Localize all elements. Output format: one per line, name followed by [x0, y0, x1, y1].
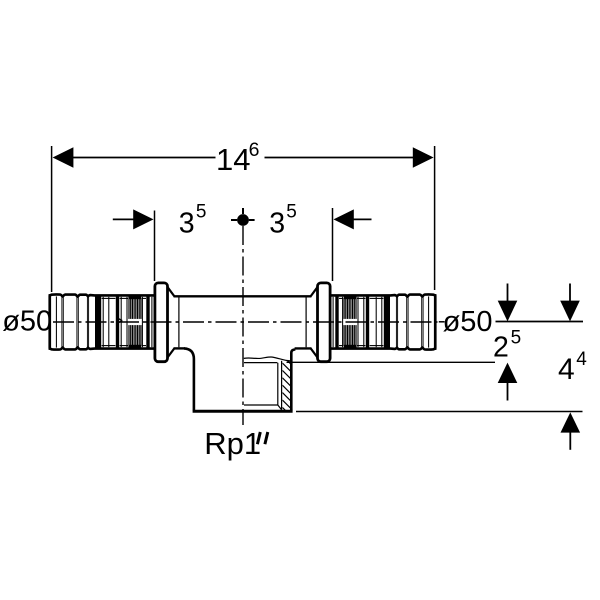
branch white fill	[195, 349, 291, 410]
svg-text:14: 14	[216, 142, 250, 177]
flange	[155, 283, 168, 362]
inch double prime marks	[257, 432, 260, 444]
pipe end mark (left)	[117, 318, 123, 321]
reference line at shoulder level	[287, 361, 496, 363]
thread bore top line	[244, 362, 277, 364]
svg-text:3: 3	[269, 207, 285, 239]
cone flange-to-body	[168, 287, 175, 357]
arrowhead left of 14^6	[53, 147, 74, 167]
right press sleeve (mirror)	[310, 283, 436, 362]
vertical branch centerline	[242, 226, 244, 425]
down arrow tail (2^5)	[507, 284, 509, 303]
break line (wavy)	[244, 357, 290, 361]
center mark tick top	[242, 208, 244, 214]
svg-text:4: 4	[576, 349, 587, 370]
left arrowhead pointing right	[133, 209, 153, 229]
branch right outline	[291, 350, 295, 411]
extension line right (x=434.5)	[434, 146, 436, 290]
body top line	[174, 295, 312, 297]
branch left outline	[184, 348, 194, 410]
up arrowhead (4^4)	[561, 412, 581, 432]
svg-text:2: 2	[493, 332, 509, 364]
svg-text:5: 5	[286, 202, 297, 223]
up arrow tail (2^5)	[507, 382, 509, 401]
body bottom line left	[174, 347, 185, 349]
dark band 3	[146, 296, 149, 348]
centerline dash before right label	[439, 321, 445, 323]
down arrowhead (2^5)	[498, 301, 518, 322]
left arrow tail	[113, 218, 134, 220]
sleeve outline	[50, 294, 156, 349]
thread wall line 1	[277, 363, 279, 405]
branch bottom	[193, 410, 293, 413]
down arrowhead (4^4)	[560, 301, 580, 322]
horizontal centerline through fitting	[53, 321, 438, 323]
svg-text:ø50: ø50	[2, 305, 52, 337]
dark band 1	[95, 295, 101, 348]
svg-text:Rp1: Rp1	[204, 426, 261, 461]
dark band 2	[116, 296, 119, 349]
svg-text:5: 5	[196, 202, 207, 223]
sleeve detail lines	[56, 296, 151, 348]
extension line right (x=332.5)	[332, 208, 334, 281]
svg-text:ø50: ø50	[443, 306, 493, 338]
thread wall line 2	[281, 361, 283, 410]
up arrowhead (2^5)	[498, 363, 518, 383]
body joint line left	[178, 298, 180, 348]
knurled ring	[128, 296, 141, 347]
down arrow tail (4^4)	[569, 284, 571, 303]
dimension line 14^6 right segment	[265, 157, 416, 159]
body joint line right	[305, 298, 307, 348]
section hatch of threaded insert	[282, 356, 290, 416]
right arrowhead pointing left	[334, 209, 354, 229]
body bottom line right	[295, 347, 312, 349]
dimension line 14^6 left segment	[71, 157, 216, 159]
extension line left (x=154.5)	[154, 211, 156, 282]
center mark tick right	[249, 219, 255, 221]
thread wall chamfer	[278, 405, 282, 410]
svg-text:5: 5	[511, 327, 522, 348]
arrowhead right of 14^6	[413, 147, 434, 167]
sleeve end lip nubs	[49, 294, 51, 299]
sleeve inner horizontal lines	[102, 298, 146, 345]
right arrow tail	[353, 218, 372, 220]
reference line at branch bottom level	[296, 411, 583, 413]
extension line left (x=51.5)	[51, 146, 53, 292]
sleeve end lip	[49, 294, 51, 350]
svg-text:4: 4	[558, 353, 575, 386]
center mark tick left	[231, 219, 237, 221]
thread bore bottom line	[244, 404, 278, 406]
svg-text:3: 3	[179, 207, 195, 239]
svg-text:6: 6	[249, 139, 260, 161]
reference line at centerline level	[496, 321, 584, 323]
center mark dot	[237, 214, 249, 226]
up arrow tail (4^4)	[569, 431, 571, 450]
